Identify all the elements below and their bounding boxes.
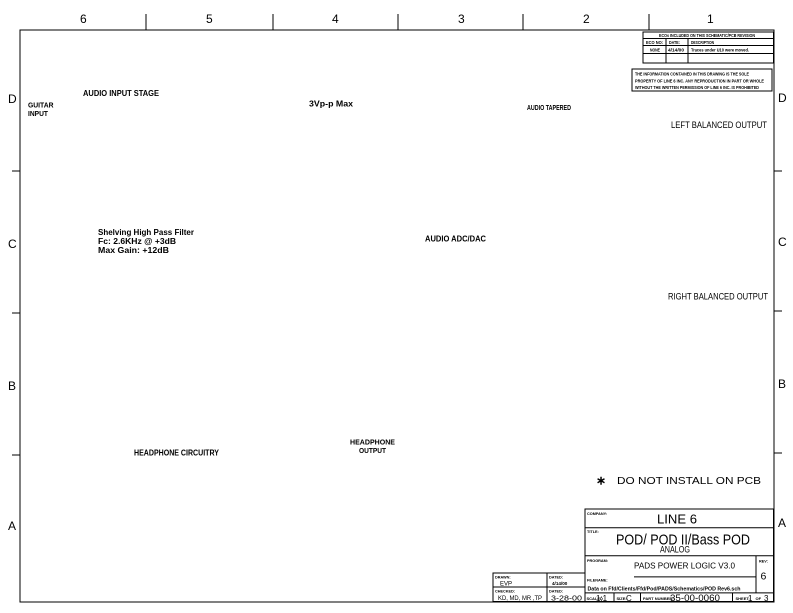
svg-text:3-28-00: 3-28-00	[551, 594, 582, 603]
svg-text:A: A	[8, 519, 16, 533]
svg-text:3: 3	[764, 594, 769, 603]
svg-text:35-00-0060: 35-00-0060	[670, 593, 720, 604]
svg-text:WITHOUT THE WRITTEN PERMISSION: WITHOUT THE WRITTEN PERMISSION OF LINE 6…	[635, 85, 759, 90]
svg-text:HEADPHONE CIRCUITRY: HEADPHONE CIRCUITRY	[134, 448, 219, 458]
svg-text:AUDIO TAPERED: AUDIO TAPERED	[527, 105, 571, 112]
svg-text:1: 1	[748, 594, 753, 603]
svg-text:DRAWN:: DRAWN:	[495, 576, 511, 580]
svg-text:Data on Ffd/Clients/Ffd/Pod/PA: Data on Ffd/Clients/Ffd/Pod/PADS/Schemat…	[588, 586, 742, 592]
svg-text:NONE: NONE	[650, 47, 660, 52]
svg-text:COMPANY:: COMPANY:	[587, 512, 607, 516]
svg-text:4/14/00: 4/14/00	[668, 47, 685, 52]
svg-text:PADS POWER LOGIC V3.0: PADS POWER LOGIC V3.0	[634, 561, 735, 571]
svg-text:3: 3	[458, 12, 465, 26]
svg-text:D: D	[778, 91, 787, 105]
svg-text:FILENAME:: FILENAME:	[587, 579, 608, 583]
svg-text:ECOs INCLUDED ON THIS SCHEMATI: ECOs INCLUDED ON THIS SCHEMATIC/PCB REVI…	[659, 33, 755, 38]
svg-text:PROPERTY OF LINE 6 INC. ANY R: PROPERTY OF LINE 6 INC. ANY REPRODUCTION…	[635, 78, 764, 83]
svg-text:ECO NO:: ECO NO:	[646, 40, 663, 45]
svg-text:AUDIO ADC/DAC: AUDIO ADC/DAC	[425, 234, 486, 244]
svg-text:5: 5	[206, 12, 213, 26]
svg-text:DO NOT INSTALL ON PCB: DO NOT INSTALL ON PCB	[617, 475, 761, 487]
svg-text:Traces under U10 were moved.: Traces under U10 were moved.	[691, 47, 749, 52]
svg-text:D: D	[8, 92, 17, 106]
svg-text:B: B	[8, 379, 16, 393]
svg-text:1: 1	[707, 12, 714, 26]
svg-text:LEFT BALANCED OUTPUT: LEFT BALANCED OUTPUT	[671, 120, 767, 130]
svg-text:LINE 6: LINE 6	[657, 511, 697, 526]
svg-text:PART NUMBER:: PART NUMBER:	[643, 596, 674, 601]
svg-text:INPUT: INPUT	[28, 109, 48, 118]
svg-text:REV:: REV:	[759, 560, 768, 564]
svg-text:Max Gain: +12dB: Max Gain: +12dB	[98, 246, 169, 255]
svg-text:OF: OF	[756, 596, 762, 601]
svg-text:3Vp-p Max: 3Vp-p Max	[309, 99, 353, 109]
svg-text:KD, MD, MR ,TP: KD, MD, MR ,TP	[498, 596, 542, 602]
svg-text:EVP: EVP	[500, 582, 512, 588]
svg-text:2: 2	[583, 12, 590, 26]
svg-text:C: C	[626, 594, 632, 603]
svg-text:Shelving High Pass Filter: Shelving High Pass Filter	[98, 228, 194, 237]
svg-text:Fc: 2.6KHz @ +3dB: Fc: 2.6KHz @ +3dB	[98, 237, 176, 246]
svg-text:C: C	[778, 235, 787, 249]
svg-text:6: 6	[80, 12, 87, 26]
svg-text:RIGHT BALANCED OUTPUT: RIGHT BALANCED OUTPUT	[668, 292, 768, 302]
svg-text:A: A	[778, 516, 786, 530]
svg-text:B: B	[778, 377, 786, 391]
svg-text:CHECKED:: CHECKED:	[495, 590, 515, 594]
svg-text:PROGRAM:: PROGRAM:	[587, 559, 608, 563]
svg-text:4/14/00: 4/14/00	[552, 581, 568, 586]
svg-text:OUTPUT: OUTPUT	[359, 446, 386, 455]
svg-text:ANALOG: ANALOG	[660, 545, 690, 555]
svg-text:∗: ∗	[596, 474, 606, 488]
svg-text:THE INFORMATION CONTAINED IN T: THE INFORMATION CONTAINED IN THIS DRAWIN…	[635, 72, 749, 77]
svg-text:1:1: 1:1	[596, 594, 608, 603]
svg-text:DATED:: DATED:	[549, 576, 563, 580]
svg-text:4: 4	[332, 12, 339, 26]
svg-text:DESCRIPTION: DESCRIPTION	[691, 40, 714, 45]
svg-text:AUDIO INPUT STAGE: AUDIO INPUT STAGE	[83, 88, 159, 98]
svg-text:DATE:: DATE:	[669, 40, 680, 45]
svg-text:C: C	[8, 237, 17, 251]
svg-text:6: 6	[761, 571, 767, 583]
svg-text:TITLE:: TITLE:	[587, 530, 599, 534]
